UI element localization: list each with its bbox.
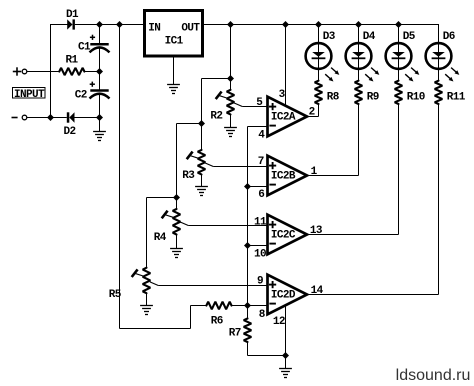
svg-text:D4: D4 — [363, 31, 376, 43]
svg-text:IC2D: IC2D — [271, 290, 296, 302]
svg-text:D3: D3 — [323, 31, 336, 43]
svg-text:14: 14 — [311, 285, 324, 297]
svg-text:2: 2 — [309, 106, 315, 118]
svg-text:C2: C2 — [75, 89, 87, 101]
svg-text:C1: C1 — [78, 41, 91, 53]
svg-text:13: 13 — [310, 225, 323, 237]
svg-text:R7: R7 — [229, 327, 241, 339]
svg-text:ldsound.ru: ldsound.ru — [396, 367, 471, 384]
svg-text:R10: R10 — [407, 91, 425, 103]
svg-text:R3: R3 — [182, 170, 195, 182]
svg-text:1: 1 — [311, 166, 318, 178]
svg-text:R1: R1 — [66, 55, 79, 67]
svg-text:R11: R11 — [447, 91, 466, 103]
svg-text:IC1: IC1 — [165, 35, 184, 47]
svg-text:OUT: OUT — [181, 22, 200, 34]
svg-text:R8: R8 — [327, 91, 340, 103]
svg-text:R2: R2 — [210, 111, 222, 123]
svg-text:R6: R6 — [211, 316, 223, 328]
svg-text:8: 8 — [259, 309, 266, 321]
svg-text:3: 3 — [279, 89, 286, 101]
svg-text:10: 10 — [254, 249, 266, 261]
svg-text:11: 11 — [254, 216, 267, 228]
svg-text:D2: D2 — [64, 126, 76, 138]
svg-text:7: 7 — [258, 156, 264, 168]
svg-text:6: 6 — [258, 189, 264, 201]
svg-text:D1: D1 — [66, 9, 79, 21]
svg-text:R4: R4 — [154, 232, 167, 244]
svg-text:R9: R9 — [367, 91, 379, 103]
svg-text:IN: IN — [148, 22, 160, 34]
svg-text:IC2B: IC2B — [271, 171, 296, 183]
svg-text:INPUT: INPUT — [14, 89, 45, 101]
svg-text:IC2A: IC2A — [271, 112, 296, 124]
svg-text:4: 4 — [258, 129, 265, 141]
svg-text:D6: D6 — [443, 31, 455, 43]
svg-text:9: 9 — [257, 276, 263, 288]
svg-text:D5: D5 — [403, 31, 416, 43]
svg-text:5: 5 — [256, 97, 263, 109]
svg-text:12: 12 — [273, 316, 285, 328]
svg-text:IC2C: IC2C — [271, 230, 296, 242]
